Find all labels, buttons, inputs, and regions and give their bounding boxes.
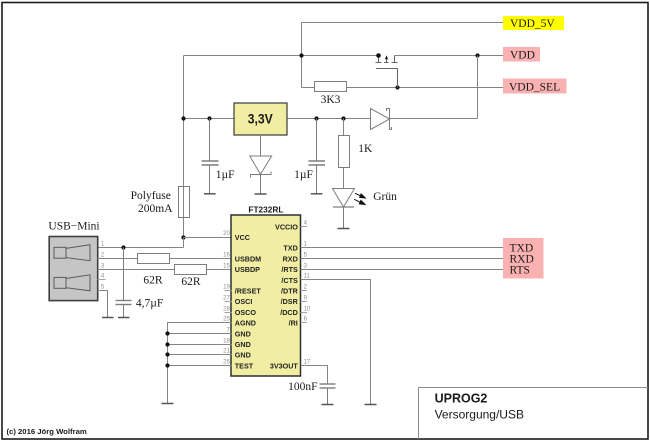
svg-text:VDD_SEL: VDD_SEL	[509, 82, 560, 94]
wire 5V rail horizontal to MOSFET	[184, 55, 379, 57]
wire USBDP left	[98, 269, 175, 271]
wire stub VCCIO	[301, 226, 308, 228]
wire /CTS to ground	[301, 280, 371, 405]
diode D1 schottky (to VDD)	[371, 108, 392, 130]
svg-text:1: 1	[304, 241, 308, 247]
wire regulator output	[287, 118, 371, 120]
svg-text:20: 20	[223, 231, 230, 237]
svg-text:AGND: AGND	[235, 319, 256, 328]
svg-text:FT232RL: FT232RL	[248, 204, 283, 214]
node junction C2 tap	[314, 116, 318, 120]
svg-text:200mA: 200mA	[138, 203, 173, 215]
svg-text:4,7µF: 4,7µF	[136, 298, 163, 310]
svg-text:Polyfuse: Polyfuse	[131, 190, 171, 202]
svg-text:USB−Mini: USB−Mini	[48, 221, 99, 233]
node junction VDD/diode	[475, 53, 479, 57]
capacitor C2 1uF	[309, 119, 326, 194]
net label VDD_5V	[503, 16, 564, 30]
wire USB pin4 stub	[98, 279, 106, 281]
wire GND pin18	[168, 344, 232, 346]
svg-text:VDD: VDD	[510, 50, 535, 62]
connector X1 USB-Mini	[48, 221, 99, 301]
wire USBDM right	[170, 258, 232, 260]
svg-text:RXD: RXD	[283, 254, 298, 263]
svg-text:4: 4	[304, 220, 308, 226]
transistor Q1 substrate arrow head	[385, 55, 388, 59]
node junction GND21	[165, 352, 169, 356]
wire stub /DTR	[301, 290, 308, 292]
svg-text:GND: GND	[235, 340, 251, 349]
svg-text:26: 26	[223, 359, 230, 365]
svg-text:21: 21	[223, 348, 230, 354]
wire VDD_5V riser	[301, 23, 303, 88]
node junction R2 tap	[341, 116, 345, 120]
svg-text:TEST: TEST	[235, 361, 254, 370]
svg-text:UPROG2: UPROG2	[435, 392, 488, 406]
svg-text:10: 10	[304, 306, 311, 312]
svg-text:62R: 62R	[143, 274, 163, 286]
svg-text:/CTS: /CTS	[281, 276, 298, 285]
svg-text:/RI: /RI	[289, 319, 298, 328]
wire VDD_SEL net	[347, 87, 504, 89]
svg-text:4: 4	[101, 273, 105, 279]
node junction C1 tap	[207, 116, 211, 120]
svg-text:1µF: 1µF	[216, 169, 235, 181]
node junction GND7	[165, 331, 169, 335]
svg-text:Versorgung/USB: Versorgung/USB	[435, 408, 524, 422]
node Q1 drain dot	[376, 53, 381, 58]
wire 3V3OUT to C4	[301, 366, 328, 385]
wire USB pin5 shield to ground	[98, 291, 108, 318]
ground (below C2)	[311, 193, 323, 195]
resistor R4 62R	[175, 265, 207, 289]
wire USBDM left	[98, 258, 138, 260]
ground (below D2)	[255, 193, 267, 195]
wire TXD net	[301, 247, 504, 249]
wire stub OSCI	[225, 301, 232, 303]
ground (below C1)	[204, 193, 216, 195]
wire VBUS riser	[183, 238, 185, 248]
node junction gate/VDD_SEL	[395, 85, 399, 89]
diode D2 (regulator ground, schottky)	[250, 135, 272, 194]
wire stub OSCO	[225, 312, 232, 314]
resistor R2 1K	[339, 119, 374, 189]
wire stub /RI	[301, 322, 308, 324]
svg-text:1: 1	[101, 241, 105, 247]
wire GND pin21	[168, 354, 232, 356]
node junction TEST	[165, 363, 169, 367]
net label VDD_SEL	[503, 79, 567, 94]
wire regulator input	[184, 118, 235, 120]
svg-text:3K3: 3K3	[321, 94, 341, 106]
wire VDD net	[395, 55, 504, 57]
svg-text:9: 9	[304, 295, 308, 301]
transistor Q1 p-MOSFET	[376, 56, 398, 88]
svg-text:USBDM: USBDM	[235, 254, 261, 263]
wire diode cathode riser	[390, 56, 478, 119]
svg-text:VCCIO: VCCIO	[275, 222, 298, 231]
svg-text:/RESET: /RESET	[235, 287, 262, 296]
node junction C3 tap	[121, 245, 125, 249]
svg-text:/DSR: /DSR	[281, 297, 299, 306]
svg-text:Grün: Grün	[373, 191, 397, 203]
wire GND pin7	[168, 333, 232, 335]
LED D3 green	[333, 189, 355, 229]
svg-text:6: 6	[304, 316, 308, 322]
ground (below LED)	[338, 228, 350, 230]
wire 5V rail vertical (left, through polyfuse)	[183, 56, 185, 238]
wire USB pin1 VBUS	[98, 247, 184, 249]
wire USBDP right	[207, 269, 232, 271]
svg-text:3,3V: 3,3V	[248, 110, 274, 126]
svg-text:17: 17	[304, 359, 311, 365]
wire RTS net	[301, 269, 504, 271]
svg-text:2: 2	[304, 284, 308, 290]
svg-text:15: 15	[223, 263, 230, 269]
svg-text:16: 16	[223, 252, 230, 258]
wire RXD net	[301, 258, 504, 260]
svg-text:100nF: 100nF	[288, 381, 317, 393]
svg-text:USBDP: USBDP	[235, 265, 260, 274]
svg-text:62R: 62R	[181, 276, 201, 288]
svg-text:/DTR: /DTR	[281, 287, 299, 296]
wire to 3K3	[302, 87, 315, 89]
wire TEST	[168, 365, 232, 367]
wire AGND bus	[168, 323, 232, 404]
title block	[419, 388, 649, 440]
svg-text:25: 25	[223, 316, 230, 322]
ground (USB shield)	[102, 317, 114, 319]
svg-text:1K: 1K	[358, 143, 373, 155]
wire stub /DSR	[301, 301, 308, 303]
svg-text:19: 19	[223, 284, 230, 290]
node junction GND18	[165, 342, 169, 346]
fuse F1 polyfuse	[131, 187, 190, 218]
svg-text:7: 7	[226, 327, 230, 333]
node junction 5V/VDD_5V	[299, 53, 303, 57]
svg-text:3: 3	[101, 263, 105, 269]
wire VDD_5V net	[302, 22, 504, 24]
svg-text:OSCO: OSCO	[235, 308, 257, 317]
svg-text:/RTS: /RTS	[281, 265, 298, 274]
wire stub /DCD	[301, 312, 308, 314]
resistor R1 3K3	[315, 82, 347, 106]
svg-text:5: 5	[101, 284, 105, 290]
svg-text:28: 28	[223, 306, 230, 312]
capacitor C4 100nF	[320, 384, 336, 405]
svg-text:VDD_5V: VDD_5V	[510, 18, 555, 30]
svg-text:TXD: TXD	[283, 244, 297, 253]
svg-text:1µF: 1µF	[294, 169, 313, 181]
wire stub /RESET	[225, 290, 232, 292]
wire VCC to chip	[184, 237, 232, 239]
svg-text:VCC: VCC	[235, 233, 250, 242]
regulator U2 3,3V	[234, 103, 287, 135]
svg-text:OSCI: OSCI	[235, 297, 253, 306]
resistor R3 62R	[138, 254, 170, 287]
node junction VCC/fuse	[181, 235, 185, 239]
svg-text:/DCD: /DCD	[280, 308, 298, 317]
svg-text:18: 18	[223, 338, 230, 344]
svg-text:27: 27	[223, 295, 230, 301]
capacitor C1 1uF	[202, 119, 219, 194]
ground (below C4)	[322, 404, 334, 406]
IC U1 FT232RL body	[231, 215, 301, 376]
node junction 5V/reg input	[181, 116, 185, 120]
ground (below C3)	[118, 317, 130, 319]
net label TXD RXD RTS	[503, 238, 544, 279]
svg-text:2: 2	[101, 252, 105, 258]
svg-text:3V3OUT: 3V3OUT	[270, 361, 299, 370]
svg-text:3: 3	[304, 263, 308, 269]
net label VDD	[503, 47, 540, 62]
ground (/CTS)	[365, 404, 377, 406]
svg-text:GND: GND	[235, 329, 251, 338]
ground (GND bus)	[162, 403, 174, 405]
capacitor C3 4,7uF	[116, 248, 132, 318]
svg-text:RTS: RTS	[510, 264, 530, 276]
svg-text:GND: GND	[235, 351, 251, 360]
svg-text:5: 5	[304, 252, 308, 258]
svg-text:11: 11	[304, 273, 311, 279]
LED D3 light arrows	[354, 193, 365, 204]
svg-text:(c) 2016 Jörg Wolfram: (c) 2016 Jörg Wolfram	[7, 427, 87, 436]
